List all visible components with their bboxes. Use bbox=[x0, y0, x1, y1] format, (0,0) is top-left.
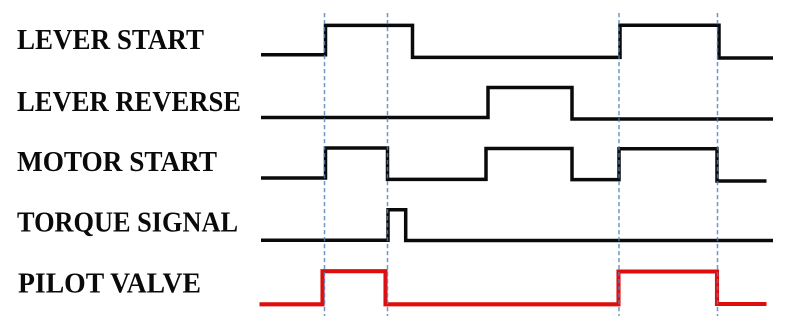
time marker T1 dashed line bbox=[324, 13, 326, 316]
time marker T4 dashed line bbox=[717, 13, 719, 316]
svg-text:MOTOR START: MOTOR START bbox=[17, 146, 217, 178]
svg-text:TORQUE SIGNAL: TORQUE SIGNAL bbox=[17, 207, 238, 239]
time marker T2 dashed line bbox=[387, 13, 389, 316]
waveform MOTOR START signal trace bbox=[261, 148, 767, 181]
svg-text:PILOT VALVE: PILOT VALVE bbox=[18, 268, 201, 300]
waveform LEVER REVERSE signal trace bbox=[261, 88, 773, 120]
time marker T3 dashed line bbox=[618, 13, 620, 316]
waveform TORQUE SIGNAL signal trace bbox=[261, 210, 773, 241]
svg-text:LEVER REVERSE: LEVER REVERSE bbox=[17, 86, 241, 118]
svg-text:LEVER START: LEVER START bbox=[17, 24, 204, 56]
waveform PILOT VALVE signal trace (red) bbox=[260, 271, 767, 304]
waveform LEVER START signal trace bbox=[261, 25, 773, 58]
